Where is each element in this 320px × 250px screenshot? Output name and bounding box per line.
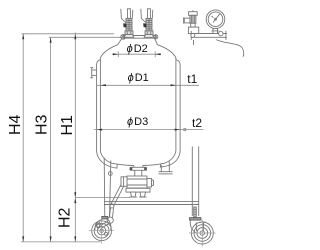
bottom clamp flange xyxy=(130,167,147,170)
drain outlet stub xyxy=(96,222,109,229)
dimension phiD2 xyxy=(112,51,161,57)
manifold bottom stub xyxy=(193,40,195,45)
jacket left wall xyxy=(97,60,100,152)
jacket right wall xyxy=(176,60,180,152)
tank lid band xyxy=(123,36,156,39)
wire ground line xyxy=(21,241,101,243)
drain pipe lower xyxy=(110,208,114,218)
left caster fork right xyxy=(108,219,112,231)
jacket closure right xyxy=(159,164,162,168)
dish nozzle right (downward) xyxy=(159,161,173,174)
svg-text:t1: t1 xyxy=(187,72,197,86)
tank dish jacket right xyxy=(160,152,180,168)
lid clamp left xyxy=(121,34,126,39)
tank dish jacket left xyxy=(97,152,117,169)
valve bottom flange xyxy=(126,188,150,192)
jacket inlet nozzle left xyxy=(90,68,96,78)
left leg hole xyxy=(108,172,112,176)
gauge stem xyxy=(212,28,220,33)
tank dome right xyxy=(158,45,176,58)
jacket closure left xyxy=(116,165,119,169)
wire top extension line upper (lid top reference) xyxy=(22,33,115,35)
gauge valve handwheel xyxy=(189,10,198,15)
tank shell left wall xyxy=(99,58,101,151)
manifold right flange xyxy=(219,31,226,40)
manifold left flange xyxy=(191,31,195,40)
valve neck xyxy=(135,170,142,176)
top valve V2 xyxy=(141,9,154,38)
gauge manifold pipe xyxy=(191,34,227,38)
gauge valve bonnet xyxy=(184,15,196,27)
left caster fork xyxy=(95,219,103,230)
drain pipe diagonal xyxy=(111,185,124,206)
tank neck slant left xyxy=(118,38,122,45)
dimension phiD3 xyxy=(94,128,204,130)
top valve V1 xyxy=(121,9,134,38)
wire top extension line lower (lid bottom reference) xyxy=(49,36,122,38)
svg-text:H4: H4 xyxy=(7,114,24,135)
valve feet xyxy=(130,192,147,197)
tank dish shell right xyxy=(143,151,176,166)
drain elbow small circle xyxy=(110,204,114,208)
svg-text:ϕD2: ϕD2 xyxy=(127,43,148,55)
svg-text:ϕD1: ϕD1 xyxy=(128,72,149,84)
dimension H2 line xyxy=(74,198,76,242)
left leg xyxy=(104,158,111,218)
svg-text:H2: H2 xyxy=(57,207,74,228)
right caster plate xyxy=(190,218,202,221)
dimension H4 line xyxy=(22,34,24,242)
svg-text:t2: t2 xyxy=(192,116,202,130)
right leg xyxy=(192,146,198,216)
lid clamp right xyxy=(154,35,158,39)
wire H2 top extension line xyxy=(75,197,130,199)
right caster fork legs xyxy=(196,222,205,231)
tank neck slant right xyxy=(155,38,158,45)
right caster stem xyxy=(194,207,197,217)
left caster wheel xyxy=(89,218,114,243)
svg-text:ϕD3: ϕD3 xyxy=(127,116,148,128)
tank dome left xyxy=(100,45,117,58)
valve V1 clamp blob xyxy=(123,23,126,27)
left caster plate xyxy=(102,216,108,219)
bottom valve body xyxy=(121,176,154,188)
tank dish shell left xyxy=(100,151,133,166)
dimension phiD1 xyxy=(96,84,199,86)
pressure gauge dial xyxy=(206,10,225,29)
right caster fork left xyxy=(190,220,195,232)
drain ball fitting xyxy=(107,217,113,223)
bottom outlet nozzle xyxy=(134,166,143,168)
valve V2 clamp blob xyxy=(143,23,146,27)
dimension H3 line xyxy=(50,37,52,242)
dimension H1 line xyxy=(74,33,76,198)
svg-text:H1: H1 xyxy=(59,115,76,136)
vent hose xyxy=(216,40,244,57)
svg-text:H3: H3 xyxy=(34,114,51,135)
right caster wheel xyxy=(189,220,216,247)
tank shell right wall xyxy=(175,58,177,151)
frame rail xyxy=(104,201,199,204)
gauge valve body xyxy=(188,27,198,33)
